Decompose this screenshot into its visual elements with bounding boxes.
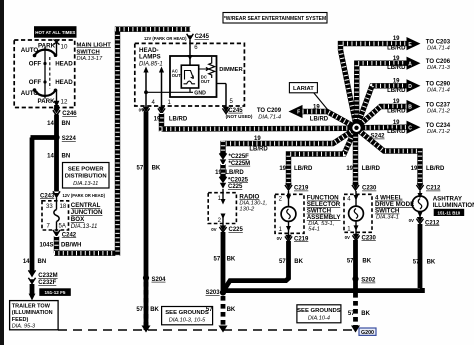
ground lead right dashed: [353, 293, 358, 326]
svg-text:SEE GROUNDS: SEE GROUNDS: [297, 308, 341, 314]
wire to arrow F: [301, 104, 357, 128]
see grounds note left: [162, 307, 213, 325]
svg-text:BK: BK: [227, 307, 236, 313]
svg-text:57: 57: [279, 259, 286, 265]
wire 14 BN upper: [47, 115, 70, 192]
svg-text:19: 19: [279, 166, 286, 172]
svg-text:14: 14: [47, 154, 54, 160]
svg-text:OFF: OFF: [29, 61, 42, 68]
4wd label: [375, 195, 414, 221]
svg-text:57: 57: [214, 256, 221, 262]
svg-text:C232F: C232F: [38, 280, 56, 286]
connector C219 top: [285, 183, 309, 191]
rotary switch bottom half: [33, 82, 58, 99]
radio box: [208, 189, 267, 226]
svg-text:C245: C245: [195, 34, 210, 40]
svg-text:S203: S203: [206, 290, 221, 296]
wire 57 BK ashtray and bottom bus: [223, 224, 436, 317]
power tag HOT AT ALL TIMES: [34, 26, 77, 38]
svg-text:DIA.71-2: DIA.71-2: [427, 129, 451, 135]
svg-text:BK: BK: [294, 259, 303, 265]
wire 19 LB/RD radio drop: [215, 164, 244, 178]
4 wheel drive mode switch box with lamp: [344, 191, 372, 235]
svg-text:0V: 0V: [345, 235, 350, 240]
connector C219 bottom: [277, 235, 309, 243]
svg-text:DIA.71-4: DIA.71-4: [258, 114, 281, 120]
svg-text:33: 33: [46, 204, 53, 210]
connector C245 bottom row: [139, 107, 253, 119]
svg-text:SWITCH: SWITCH: [375, 208, 400, 215]
svg-text:57: 57: [347, 258, 354, 264]
svg-text:19: 19: [254, 136, 261, 142]
svg-text:12: 12: [61, 98, 68, 105]
svg-text:DIA.71-3: DIA.71-3: [427, 65, 451, 71]
svg-text:ASSEMBLY: ASSEMBLY: [307, 214, 342, 221]
svg-text:S202: S202: [361, 278, 376, 284]
svg-text:BK: BK: [150, 307, 159, 313]
splice S224: [53, 134, 76, 142]
svg-text:19: 19: [393, 99, 400, 105]
svg-text:C230: C230: [362, 235, 377, 241]
svg-text:5A: 5A: [59, 223, 66, 229]
svg-text:GND: GND: [194, 91, 206, 97]
svg-text:HEAD: HEAD: [55, 79, 73, 86]
svg-text:C230: C230: [362, 186, 377, 192]
ground lead mid dashed: [221, 296, 226, 326]
svg-text:LB/RD: LB/RD: [387, 65, 406, 71]
function selector switch box with lamp: [275, 191, 304, 236]
svg-text:SWITCH: SWITCH: [77, 49, 100, 55]
svg-text:CENTRAL: CENTRAL: [71, 202, 101, 209]
svg-text:19: 19: [154, 116, 161, 122]
svg-text:F: F: [297, 110, 300, 116]
function selector label: [307, 195, 342, 233]
wire 19 LB/RD bar A from pin 1 to splice: [154, 113, 352, 132]
svg-text:(ILLUMINATION: (ILLUMINATION: [12, 310, 53, 316]
svg-text:BN: BN: [38, 259, 47, 265]
wire 57 BK function selector: [224, 241, 304, 290]
connector C225 bottom: [211, 225, 243, 233]
ground symbol left: [142, 326, 151, 333]
mechanical link dashed: [49, 57, 51, 89]
dimmer module: [170, 56, 244, 97]
wire from pin 12 to C246: [54, 105, 59, 110]
svg-text:LB/RD: LB/RD: [249, 147, 268, 153]
svg-text:LB/RD: LB/RD: [169, 116, 188, 122]
see grounds note right: [297, 305, 341, 323]
svg-text:C246: C246: [62, 111, 77, 117]
ashtray illumination lamp: [412, 191, 428, 218]
central junction box label: [71, 202, 103, 230]
svg-text:0V: 0V: [277, 236, 282, 241]
svg-text:BK: BK: [227, 256, 236, 262]
svg-text:LB/RD: LB/RD: [426, 166, 445, 172]
svg-text:(NOT USED): (NOT USED): [226, 114, 253, 119]
arrow D to C290: [407, 79, 451, 93]
svg-text:DIMMER: DIMMER: [219, 67, 243, 73]
svg-text:*C225M: *C225M: [229, 161, 251, 167]
svg-text:S242: S242: [371, 134, 386, 140]
splice S203: [206, 289, 227, 296]
svg-text:DIA.34-1: DIA.34-1: [376, 215, 399, 221]
wire to arrow D: [357, 78, 409, 127]
svg-text:BN: BN: [62, 121, 71, 127]
connector C230 bottom: [345, 234, 377, 242]
svg-text:0V: 0V: [409, 218, 414, 223]
svg-text:19: 19: [215, 170, 222, 176]
svg-text:D: D: [408, 84, 412, 90]
svg-text:DIA.13-17: DIA.13-17: [77, 56, 103, 62]
svg-text:DIA.10-3, 10-5: DIA.10-3, 10-5: [169, 317, 206, 323]
svg-text:10: 10: [61, 44, 68, 51]
wire 57 BK left: [136, 112, 161, 330]
svg-text:G200: G200: [361, 330, 374, 336]
svg-text:DIA.71-4: DIA.71-4: [427, 45, 450, 51]
svg-text:BK: BK: [152, 165, 161, 171]
svg-text:*C225F: *C225F: [229, 154, 250, 160]
connector C232M C232F: [28, 270, 57, 295]
connector C225F C225M: [219, 153, 250, 167]
svg-text:ILLUMINATION: ILLUMINATION: [433, 202, 474, 209]
svg-text:C242: C242: [62, 232, 77, 238]
svg-text:151-12 F5: 151-12 F5: [45, 290, 66, 295]
svg-text:C243: C243: [40, 193, 55, 199]
arrow C to C234: [407, 121, 451, 135]
arrow A to C206: [407, 57, 451, 71]
wire 57 BK 4wd: [347, 240, 372, 290]
ground lead left dashed: [144, 282, 149, 326]
splice S242: [350, 122, 385, 140]
main light switch label: [77, 42, 112, 62]
svg-text:LB/RD: LB/RD: [362, 166, 381, 172]
svg-text:19: 19: [313, 104, 320, 110]
tag 151-12 F5: [39, 288, 71, 296]
svg-text:130-2: 130-2: [239, 206, 255, 212]
svg-text:LB/RD: LB/RD: [387, 46, 406, 52]
svg-text:RADIO: RADIO: [239, 193, 259, 200]
svg-text:C219: C219: [294, 236, 309, 242]
svg-text:DB/WH: DB/WH: [61, 242, 81, 248]
connector C243: [40, 191, 106, 199]
svg-text:DISTRIBUTION: DISTRIBUTION: [65, 174, 107, 180]
svg-text:OUT: OUT: [172, 73, 181, 78]
splice S204: [143, 275, 166, 283]
svg-text:SEE POWER: SEE POWER: [68, 167, 104, 173]
svg-text:12V (PARK OR HEAD): 12V (PARK OR HEAD): [63, 193, 106, 198]
svg-text:151-11 B10: 151-11 B10: [438, 210, 461, 215]
svg-text:PARK: PARK: [38, 98, 56, 105]
svg-text:B: B: [408, 105, 412, 111]
svg-text:JUNCTION: JUNCTION: [71, 209, 103, 216]
svg-text:C232M: C232M: [38, 273, 57, 279]
svg-text:19: 19: [411, 166, 418, 172]
svg-text:OUT: OUT: [201, 79, 210, 84]
svg-text:12V (PARK OR HEAD): 12V (PARK OR HEAD): [144, 36, 187, 41]
ashtray label: [433, 195, 474, 216]
svg-text:BN: BN: [62, 154, 71, 160]
wire 19 LB/RD 4wd branch: [346, 128, 380, 185]
svg-text:LAMPS: LAMPS: [139, 54, 161, 61]
svg-text:BK: BK: [427, 260, 436, 266]
connector C230 top: [352, 183, 377, 191]
svg-text:C245: C245: [228, 108, 243, 114]
svg-text:57: 57: [206, 307, 213, 313]
svg-text:OFF: OFF: [29, 79, 42, 86]
wire to arrow A: [357, 56, 409, 128]
svg-text:LB/RD: LB/RD: [387, 109, 406, 115]
svg-text:19: 19: [346, 166, 353, 172]
wire 19 LB/RD ashtray branch: [358, 130, 445, 186]
ground symbol mid: [219, 326, 228, 333]
svg-text:C225: C225: [229, 227, 244, 233]
connector C2025 C225: [219, 176, 248, 190]
wire C245 to dimmer pin 6: [188, 40, 199, 66]
svg-text:BK: BK: [362, 258, 371, 264]
splice S202: [352, 276, 376, 284]
svg-text:104S: 104S: [39, 242, 53, 248]
svg-text:DIA.71-4: DIA.71-4: [427, 88, 450, 94]
headlamps module box: [135, 43, 245, 106]
svg-text:57: 57: [136, 307, 143, 313]
svg-text:19: 19: [393, 120, 400, 126]
pin 12 lead with arrow: [54, 90, 60, 107]
svg-text:19: 19: [393, 78, 400, 84]
svg-text:57: 57: [137, 165, 144, 171]
svg-text:C: C: [408, 125, 412, 131]
svg-text:BK: BK: [361, 311, 370, 317]
svg-text:LB/RD: LB/RD: [310, 117, 329, 123]
central junction box with fuse 18 5A: [42, 198, 69, 231]
svg-text:TO C209: TO C209: [257, 108, 282, 114]
svg-text:A: A: [408, 61, 412, 67]
svg-text:14: 14: [47, 121, 54, 127]
wire 57 BK radio: [206, 232, 236, 313]
connector C245 top: [144, 34, 210, 41]
svg-text:C212: C212: [425, 220, 440, 226]
wire 104S DB/WH feed: [39, 29, 190, 256]
wire 19 LB/RD function selector branch: [279, 130, 355, 185]
arrow E to C203: [407, 37, 451, 51]
connector C212 bottom: [409, 217, 440, 226]
svg-text:DIA.10-4: DIA.10-4: [308, 316, 330, 322]
arrow F to C209: [257, 105, 303, 121]
pin 10 lead with X: [54, 39, 60, 55]
wiper link line: [43, 64, 46, 84]
see power distribution note: [63, 163, 110, 189]
svg-text:*W/REAR SEAT ENTERTAINMENT SYS: *W/REAR SEAT ENTERTAINMENT SYSTEM: [224, 16, 326, 22]
svg-text:*C2025: *C2025: [228, 177, 249, 183]
connector C242: [53, 230, 77, 238]
svg-text:DIA.13-11: DIA.13-11: [73, 181, 98, 187]
svg-text:TRAILER TOW: TRAILER TOW: [12, 304, 51, 310]
svg-text:S204: S204: [152, 277, 167, 283]
svg-text:DIA.71-2: DIA.71-2: [427, 108, 451, 114]
connector C212 top: [416, 183, 441, 191]
svg-text:S224: S224: [62, 136, 77, 142]
svg-text:DIA.85-1: DIA.85-1: [139, 61, 163, 67]
svg-text:18: 18: [60, 204, 67, 210]
arrow into trailer tow: [29, 294, 36, 301]
ground symbol right: [351, 326, 360, 333]
svg-text:LARIAT: LARIAT: [293, 86, 314, 92]
svg-text:SEE GROUNDS: SEE GROUNDS: [165, 310, 209, 316]
rotary switch top half: [33, 47, 58, 65]
wire 19 LB/RD bar B splice to radio branch: [223, 130, 355, 155]
wire to arrow B: [357, 99, 409, 128]
wire to arrow C: [357, 120, 409, 135]
svg-text:DIA. 95-3: DIA. 95-3: [12, 323, 36, 329]
connector C246: [53, 109, 77, 117]
main light switch box: [14, 40, 74, 108]
title box W/REAR SEAT ENTERTAINMENT SYSTEM: [223, 13, 327, 24]
svg-text:HOT AT ALL TIMES: HOT AT ALL TIMES: [35, 30, 75, 35]
svg-text:LB/RD: LB/RD: [387, 129, 406, 135]
svg-text:HEAD: HEAD: [55, 61, 73, 68]
svg-text:LB/RD: LB/RD: [294, 166, 313, 172]
svg-text:C225: C225: [228, 184, 243, 190]
svg-text:FEED): FEED): [12, 317, 29, 323]
wire to arrow E: [341, 36, 409, 128]
svg-text:C212: C212: [426, 186, 441, 192]
svg-text:19: 19: [393, 36, 400, 42]
svg-text:BOX: BOX: [71, 216, 85, 223]
LARIAT note: [289, 83, 327, 110]
wire branch 14 BN to trailer tow: [23, 138, 57, 274]
svg-text:DIA.13-11: DIA.13-11: [71, 224, 98, 230]
ground bus dashed line: [58, 329, 357, 331]
arrow B to C237: [407, 100, 451, 114]
svg-text:0V: 0V: [211, 227, 216, 232]
svg-text:54-1: 54-1: [308, 227, 320, 233]
svg-text:14: 14: [23, 259, 30, 265]
svg-text:19: 19: [393, 56, 400, 62]
svg-text:57: 57: [413, 260, 420, 266]
svg-text:C219: C219: [294, 186, 309, 192]
svg-text:PARK: PARK: [38, 43, 56, 50]
ground G200 highlighted: [359, 328, 376, 336]
svg-text:LB/RD: LB/RD: [225, 170, 244, 176]
svg-text:LB/RD: LB/RD: [387, 88, 406, 94]
svg-text:MAIN LIGHT: MAIN LIGHT: [77, 42, 112, 48]
trailer tow note: [10, 301, 59, 330]
headlamp filament leads pins 4 and 1: [143, 67, 233, 108]
